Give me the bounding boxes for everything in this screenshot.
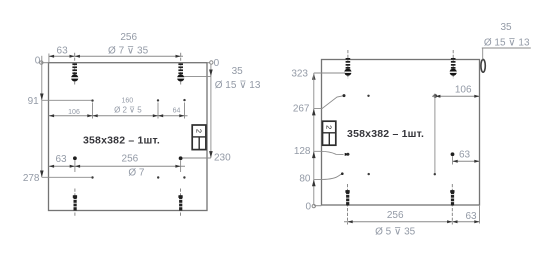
svg-text:230: 230 bbox=[214, 153, 231, 164]
bottom screw S3 plate 1 bbox=[73, 189, 77, 218]
label 35 plate 2 bbox=[500, 22, 512, 33]
label 63 top bbox=[57, 46, 69, 57]
dimension 106 plate 2 bbox=[432, 84, 480, 97]
hinge box plate 1 bbox=[192, 125, 206, 150]
label diam 15 depth 13 plate 2 bbox=[484, 37, 530, 48]
ordinate arrow 35 bbox=[209, 70, 213, 77]
svg-text:2: 2 bbox=[325, 125, 334, 129]
svg-text:128: 128 bbox=[294, 146, 311, 157]
svg-text:63: 63 bbox=[57, 46, 69, 57]
label 106 mid bbox=[68, 109, 80, 116]
label diam 5 depth 35 bbox=[375, 227, 416, 238]
label 35 bbox=[232, 66, 244, 77]
bottom screw S4 plate 1 bbox=[178, 189, 182, 218]
label 160 bbox=[121, 97, 133, 104]
label 256 bottom plate 1 bbox=[122, 153, 139, 164]
datum circle 0 top-right bbox=[207, 58, 220, 69]
plate 1 outline bbox=[49, 63, 208, 211]
plate 1 size text bbox=[83, 135, 160, 147]
svg-text:80: 80 bbox=[299, 173, 311, 184]
label diam 15 depth 13 bbox=[215, 80, 261, 91]
svg-text:Ø 5 ⊽ 35: Ø 5 ⊽ 35 bbox=[375, 227, 416, 238]
edge hole oval plate 2 bbox=[481, 59, 485, 72]
svg-text:91: 91 bbox=[28, 96, 40, 107]
label 64 bbox=[173, 107, 181, 114]
bottom dimension line 256/63 plate 2 bbox=[344, 220, 480, 223]
hole D3 bbox=[433, 94, 437, 98]
svg-text:256: 256 bbox=[387, 210, 404, 221]
ordinate 128 leader with arrow bbox=[294, 146, 350, 158]
svg-text:0: 0 bbox=[305, 201, 311, 212]
svg-text:Ø 15 ⊽ 13: Ø 15 ⊽ 13 bbox=[484, 37, 530, 48]
hole F3 bbox=[434, 173, 436, 175]
right edge extension plate 2 bbox=[479, 206, 481, 224]
svg-text:106: 106 bbox=[68, 109, 80, 116]
hole B2 row 230 bbox=[179, 156, 183, 160]
label 256 top bbox=[120, 32, 137, 43]
hole B1 row 230 bbox=[73, 156, 77, 160]
ordinate 80 leader bbox=[299, 173, 341, 186]
datum circle 0 bottom-left plate 2 bbox=[305, 201, 321, 212]
svg-text:63: 63 bbox=[55, 154, 67, 165]
hole row 80: hole F1 bbox=[341, 172, 344, 175]
svg-text:256: 256 bbox=[122, 153, 139, 164]
svg-text:Ø 7: Ø 7 bbox=[128, 167, 145, 178]
svg-text:267: 267 bbox=[293, 103, 310, 114]
svg-text:323: 323 bbox=[291, 69, 308, 80]
label 63 bottom plate 1 bbox=[55, 154, 67, 165]
svg-text:358x382 – 1шт.: 358x382 – 1шт. bbox=[347, 128, 424, 140]
svg-text:Ø 2 ⊽ 5: Ø 2 ⊽ 5 bbox=[114, 105, 142, 114]
label diam 2 depth 5 bbox=[114, 105, 142, 114]
svg-text:106: 106 bbox=[455, 84, 472, 95]
plate 2 outline bbox=[322, 60, 480, 206]
datum circle 0 top-left bbox=[35, 55, 49, 66]
screw S5 top-left of plate 2 bbox=[344, 50, 351, 79]
bottom screw S7 plate 2 bbox=[345, 184, 349, 225]
label diam 7 bbox=[128, 167, 145, 178]
svg-text:358x382 – 1шт.: 358x382 – 1шт. bbox=[83, 135, 160, 147]
svg-text:Ø 15 ⊽ 13: Ø 15 ⊽ 13 bbox=[215, 80, 261, 91]
hole A3 bbox=[183, 99, 185, 101]
ordinate 278 arrow and leader bbox=[23, 171, 91, 184]
svg-text:160: 160 bbox=[121, 97, 133, 104]
svg-text:0: 0 bbox=[214, 58, 220, 69]
long extension line from hole D3 down bbox=[434, 94, 436, 175]
hinge box plate 2 bbox=[323, 121, 336, 145]
screw S6 top-right of plate 2 bbox=[450, 50, 457, 79]
hole row 278: hole C1 bbox=[91, 176, 93, 178]
middle dimension line 106/160/64 bbox=[49, 114, 188, 117]
label diam 7 depth 35 bbox=[108, 46, 149, 57]
label 63 bottom plate 2 bbox=[465, 211, 477, 222]
left ordinate line plate 2 bbox=[313, 73, 315, 204]
leader 35 from screw head bbox=[184, 75, 211, 77]
svg-text:35: 35 bbox=[232, 66, 244, 77]
extension lines row 230 bbox=[75, 161, 181, 173]
svg-text:256: 256 bbox=[120, 32, 137, 43]
right ordinate line plate 1 bbox=[210, 64, 212, 158]
svg-text:0: 0 bbox=[35, 55, 41, 66]
svg-text:Ø 7 ⊽ 35: Ø 7 ⊽ 35 bbox=[108, 46, 149, 57]
hole row 91: hole A1 bbox=[91, 99, 93, 101]
svg-text:63: 63 bbox=[459, 150, 471, 161]
svg-text:63: 63 bbox=[465, 211, 477, 222]
plate 2 size text bbox=[347, 128, 424, 140]
ordinate 91 arrow and leader bbox=[28, 94, 92, 108]
hole E2 row 128 bbox=[451, 152, 455, 156]
svg-text:64: 64 bbox=[173, 107, 181, 114]
screw S1 top-left of plate 1 bbox=[71, 53, 78, 85]
left ordinate line bbox=[41, 56, 43, 178]
screw S2 top-right of plate 1 bbox=[177, 53, 184, 85]
hole D2 bbox=[367, 95, 369, 97]
dimension 63 row 128 plate 2 bbox=[453, 150, 480, 165]
svg-text:278: 278 bbox=[23, 173, 40, 184]
hole row 267: hole D1 bbox=[343, 94, 346, 97]
hole E1 row 128 bbox=[346, 153, 349, 156]
ordinate 267 leader bbox=[293, 96, 343, 116]
svg-text:2: 2 bbox=[195, 129, 204, 133]
bottom dimension line 63/256 plate 1 bbox=[49, 165, 185, 168]
svg-text:35: 35 bbox=[500, 22, 512, 33]
label 256 bottom plate 2 bbox=[387, 210, 404, 221]
extension lines row 91 bbox=[93, 103, 185, 119]
top dimension line 63/256 bbox=[49, 54, 184, 63]
leader 230 bbox=[183, 151, 232, 164]
hole C2 bbox=[157, 176, 159, 178]
ordinate 323 leader bbox=[291, 69, 345, 80]
hole F2 bbox=[368, 173, 370, 175]
hole C3 bbox=[183, 176, 185, 178]
bottom screw S8 plate 2 bbox=[450, 184, 454, 225]
leader diam 15 plate 2 bbox=[482, 48, 531, 60]
hole A2 bbox=[157, 99, 159, 101]
